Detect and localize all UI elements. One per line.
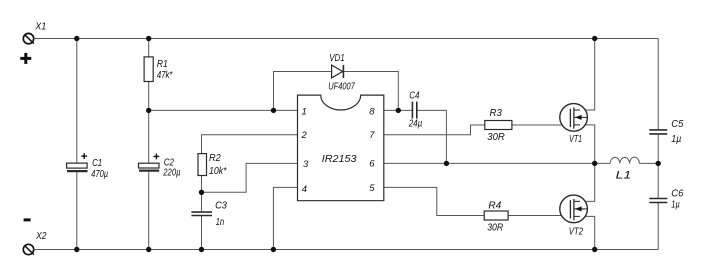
svg-text:1µ: 1µ [671,134,681,145]
svg-text:30R: 30R [487,132,505,143]
junction bottom rail C1 [74,247,79,252]
svg-text:5: 5 [369,183,375,194]
junction top rail VT1 drain [592,36,597,41]
svg-text:24µ: 24µ [408,119,423,130]
wire R2 bottom lead [201,176,203,193]
wire R4 to VT2 gate [508,215,571,217]
svg-text:4: 4 [302,184,307,195]
junction output node C5/C6 [656,161,661,166]
resistor R2 [198,154,207,176]
transistor VT1 [560,104,588,132]
wire pin 6 midpoint line [384,162,610,164]
capacitor C3 [191,212,212,215]
svg-text:30R: 30R [487,223,503,234]
svg-text:R3: R3 [490,108,503,119]
svg-text:C5: C5 [671,119,684,130]
svg-text:C3: C3 [215,201,227,212]
minus polarity mark [24,218,31,221]
wire VT1 drain to top rail [574,39,595,111]
svg-text:X2: X2 [35,231,47,242]
junction midpoint node [592,161,597,166]
svg-text:L1: L1 [616,169,632,181]
resistor R4 [484,211,508,220]
wire R2/C3 node to pin 3 [202,163,298,192]
wire C1 branch lower [76,172,78,249]
wire VT2 drain to midpoint [574,163,595,201]
wire R3 to VT1 gate [512,124,571,126]
svg-text:47k*: 47k* [157,70,173,81]
svg-text:IR2153: IR2153 [322,153,357,165]
svg-text:R1: R1 [157,59,168,70]
svg-text:8: 8 [369,107,375,118]
wire pin 8 to C4 [384,109,412,111]
capacitor C2 [139,154,160,171]
capacitor C1 [67,153,88,171]
svg-text:7: 7 [369,130,375,141]
terminal X2 [23,244,34,254]
transistor VT2 [560,195,588,223]
capacitor C5 [649,130,667,134]
svg-text:UF4007: UF4007 [328,82,355,93]
junction bottom rail pin 4 [271,247,276,252]
wire right branch middle [657,134,659,199]
junction bottom rail VT2 source [592,247,597,252]
junction top rail R1 [146,36,151,41]
wire pin 2 to R2 top [202,135,298,154]
wire VD1 cathode leg [343,72,398,111]
junction pin 8 VD1 cathode [396,108,401,113]
junction node R2/C3 [199,190,204,195]
wire top rail [34,38,659,40]
wire pin 4 to ground rail [273,187,297,249]
junction top rail C1 [74,36,79,41]
wire VT2 source to bottom rail [574,216,595,249]
wire R1 bottom to C2 [148,82,150,164]
wire pin 7 to R3 [384,125,485,135]
wire C4 to VS node [417,110,446,163]
svg-text:1n: 1n [216,217,225,228]
svg-text:6: 6 [369,158,375,169]
junction VS node C4 [444,161,449,166]
wire C1 branch upper [76,39,78,164]
svg-text:C4: C4 [409,91,420,102]
wire right branch lower [657,203,659,250]
wire C2 bottom lead [148,172,150,250]
junction Vcc node R1/C2 [146,108,151,113]
capacitor C4 [412,102,416,119]
svg-text:C6: C6 [671,188,684,199]
svg-text:1µ: 1µ [671,200,680,211]
op-amp U1 IC IR2153 body [298,95,384,201]
wire R1 top lead [148,39,150,57]
junction bottom rail C3 [199,247,204,252]
wire right branch upper [657,39,659,130]
svg-text:R4: R4 [488,201,501,212]
diode VD1 [332,65,344,78]
svg-text:3: 3 [303,159,309,170]
wire VD1 anode leg [274,72,332,111]
plus polarity mark [20,53,31,64]
resistor R1 [144,57,153,82]
svg-text:220µ: 220µ [163,168,181,179]
svg-text:C1: C1 [92,158,102,169]
junction Vcc node VD1 anode [271,108,276,113]
svg-text:470µ: 470µ [91,169,108,180]
svg-text:R2: R2 [209,153,221,164]
wire Vcc node to pin 1 [149,109,298,111]
wire C3 top lead [201,192,203,212]
svg-text:VT1: VT1 [569,134,582,145]
svg-text:10k*: 10k* [209,166,227,177]
svg-text:VT2: VT2 [569,227,584,238]
junction bottom rail C2 [146,247,151,252]
wire pin 5 to R4 [384,187,484,215]
svg-text:2: 2 [301,130,308,141]
wire VT1 source to midpoint [574,125,595,163]
capacitor C6 [649,199,667,203]
svg-text:VD1: VD1 [329,53,345,64]
resistor R3 [485,121,512,130]
wire C3 bottom lead [201,216,203,250]
terminal X1 [23,33,34,43]
inductor L1 [610,157,639,163]
svg-text:X1: X1 [34,21,46,32]
wire bottom rail [34,249,659,251]
wire L1 to output node [639,162,658,164]
svg-text:1: 1 [302,106,307,117]
